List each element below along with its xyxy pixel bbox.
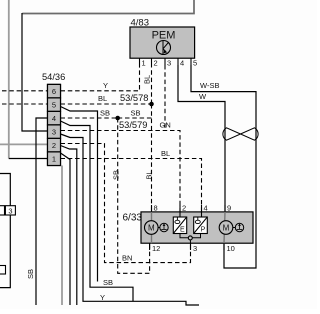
wire W-SB: PEM pin 5 down, right, down, U-turn to 6/33 pin 10 — [191, 65, 256, 268]
svg-text:P: P — [201, 227, 206, 234]
svg-text:9: 9 — [227, 204, 231, 213]
pin 4 — [177, 58, 179, 65]
node: partial reference box at left edge (upper) — [0, 206, 5, 215]
pin 3 tick — [190, 243, 192, 250]
svg-text:BL: BL — [143, 75, 152, 84]
pin 2 tick — [179, 205, 181, 212]
svg-text:W: W — [199, 92, 207, 101]
node: open circle at pin 3 — [188, 236, 192, 240]
svg-text:BN: BN — [122, 254, 132, 263]
svg-text:5: 5 — [193, 59, 197, 68]
pin 2 — [151, 58, 153, 65]
svg-text:SB: SB — [131, 109, 141, 118]
svg-text:Y: Y — [103, 81, 108, 90]
wire: gray vertical from top edge to 54/36 pin 1 — [8, 0, 10, 159]
svg-text:53/578: 53/578 — [120, 93, 148, 103]
pin 5 — [48, 98, 61, 112]
svg-text:4: 4 — [204, 204, 208, 213]
wire: pin 4 solid exit to SB bottom step — [61, 121, 134, 301]
pin 5 — [190, 58, 192, 65]
splice 53/578 — [149, 102, 154, 107]
svg-text:2: 2 — [182, 204, 186, 213]
svg-text:E: E — [180, 227, 185, 234]
svg-text:6: 6 — [52, 87, 56, 96]
svg-text:4: 4 — [180, 59, 184, 68]
wire BL dashed: splice 53/578 down to 6/33 pin 8 — [151, 104, 153, 212]
wire SB dashed: splice 53/579 down, right, up to 6/33 pin 12 — [118, 118, 150, 273]
wire: pin 3 solid exit to Y bottom step — [61, 134, 200, 305]
wire: pin 1 left horizontal — [9, 158, 48, 160]
svg-text:6/33: 6/33 — [123, 213, 143, 224]
pin 1 — [48, 152, 61, 166]
svg-text:BL: BL — [145, 170, 154, 179]
internal wires E/P to node and pin 3 — [180, 234, 201, 238]
wire GN dashed: 54/36 pin 3 right to 6/33 pin 2 — [61, 131, 181, 212]
sensor E (evaporator temp) — [173, 217, 186, 234]
sensor P (pressure) — [194, 217, 208, 234]
connector 54/36 — [42, 72, 65, 166]
fan symbol (bowtie) on W / W-SB wires — [223, 128, 258, 140]
PEM actuator icon — [157, 41, 171, 55]
svg-text:3: 3 — [167, 59, 171, 68]
wire W: PEM pin 4 down, right, down to 6/33 pin 9 — [178, 65, 225, 212]
svg-text:W-SB: W-SB — [200, 81, 219, 90]
svg-text:1: 1 — [142, 59, 146, 68]
pin 9 tick — [224, 205, 226, 212]
svg-text:SB: SB — [112, 170, 121, 180]
pin 12 tick — [149, 243, 151, 250]
svg-text:PEM: PEM — [152, 30, 176, 42]
internal wire pin9 to pin10 through motor M2 — [224, 212, 225, 243]
svg-text:SB: SB — [103, 278, 113, 287]
svg-text:2: 2 — [154, 59, 158, 68]
svg-text:3: 3 — [8, 206, 12, 215]
svg-text:SB: SB — [100, 109, 110, 118]
svg-text:10: 10 — [227, 244, 235, 253]
svg-text:3: 3 — [193, 244, 197, 253]
pin 4 tick — [201, 205, 203, 212]
svg-text:SB: SB — [26, 269, 35, 279]
pin 3 — [164, 58, 166, 65]
fan icon next to M1 — [158, 227, 160, 229]
pin 1 — [139, 58, 141, 65]
wire GN dashed: PEM pin 3 down joining GN line — [164, 65, 166, 131]
internal wire pin8 to pin12 through motor M1 — [151, 212, 153, 243]
svg-text:54/36: 54/36 — [42, 72, 65, 82]
svg-text:5: 5 — [52, 101, 56, 110]
wire Y dashed: left edge to pin 6 — [2, 90, 48, 92]
svg-text:2: 2 — [52, 141, 56, 150]
wire: SB from bottom edge up to 54/36 pin 4 (left side) — [36, 118, 48, 305]
component 6/33 (fan/blower unit) — [123, 204, 254, 254]
splice 53/579 — [115, 116, 120, 121]
motor M1 — [145, 221, 159, 235]
svg-text:BL: BL — [98, 94, 107, 103]
svg-text:4: 4 — [52, 114, 56, 123]
pin 3 — [48, 125, 61, 138]
svg-text:M: M — [223, 224, 230, 233]
pin 6 — [48, 84, 61, 98]
wire SB dashed: pin 4 right to splice 53/579 — [61, 117, 118, 119]
wire BN dashed: 54/36 pin 2 right, down, BN bus, up to 6/33 pin 3 — [61, 144, 191, 263]
wire: pin 2 solid exit down to bottom edge — [61, 146, 77, 306]
pin 4 — [48, 111, 61, 125]
wire: gray wire from left edge to 54/36 pin 2 — [0, 143, 48, 145]
wire: feed from top edge to 54/36 pin 3 — [22, 0, 194, 14]
pin 10 tick — [223, 243, 225, 250]
svg-text:12: 12 — [152, 244, 160, 253]
wire SB dashed: splice 53/579 continuing right — [118, 117, 152, 119]
svg-text:Y: Y — [100, 293, 105, 302]
svg-text:53/579: 53/579 — [119, 120, 147, 130]
motor M2 — [219, 221, 233, 235]
svg-text:BL: BL — [161, 149, 170, 158]
wire BL dashed: splice 53/578 up to PEM pin 2 — [151, 65, 153, 104]
svg-text:M: M — [148, 224, 155, 233]
wire: gray from below 54/36 pin1 box to bottom edge — [61, 166, 63, 306]
pin 8 tick — [151, 205, 153, 212]
node: partial reference box at left edge (lower) — [0, 266, 6, 275]
wire: pin 1 solid exit down to bottom edge — [61, 153, 71, 305]
wire BL dashed: 54/36 pin 1 right to 6/33 pin 4 — [61, 159, 202, 212]
wire: pin 5 solid exit down (diagonal, right, down) — [61, 107, 98, 282]
component 4/83 PEM — [130, 18, 197, 68]
wire: left edge to ref-box 3, down, back to left edge — [0, 174, 10, 288]
node: reference box 3 — [5, 206, 15, 216]
svg-text:1: 1 — [52, 155, 56, 164]
fan icon next to M2 — [233, 227, 236, 229]
svg-text:8: 8 — [154, 204, 158, 213]
wire BL dashed: left edge to pin 5 — [2, 103, 48, 105]
wire BL dashed: pin 5 right to splice 53/578 — [61, 103, 152, 105]
internal ticks pin2/pin4 into sensors — [179, 212, 181, 217]
pin 2 — [48, 138, 61, 152]
svg-text:GN: GN — [160, 121, 171, 130]
wire Y dashed: pin 6 right to PEM pin 1 — [61, 65, 140, 91]
svg-text:3: 3 — [52, 128, 56, 137]
